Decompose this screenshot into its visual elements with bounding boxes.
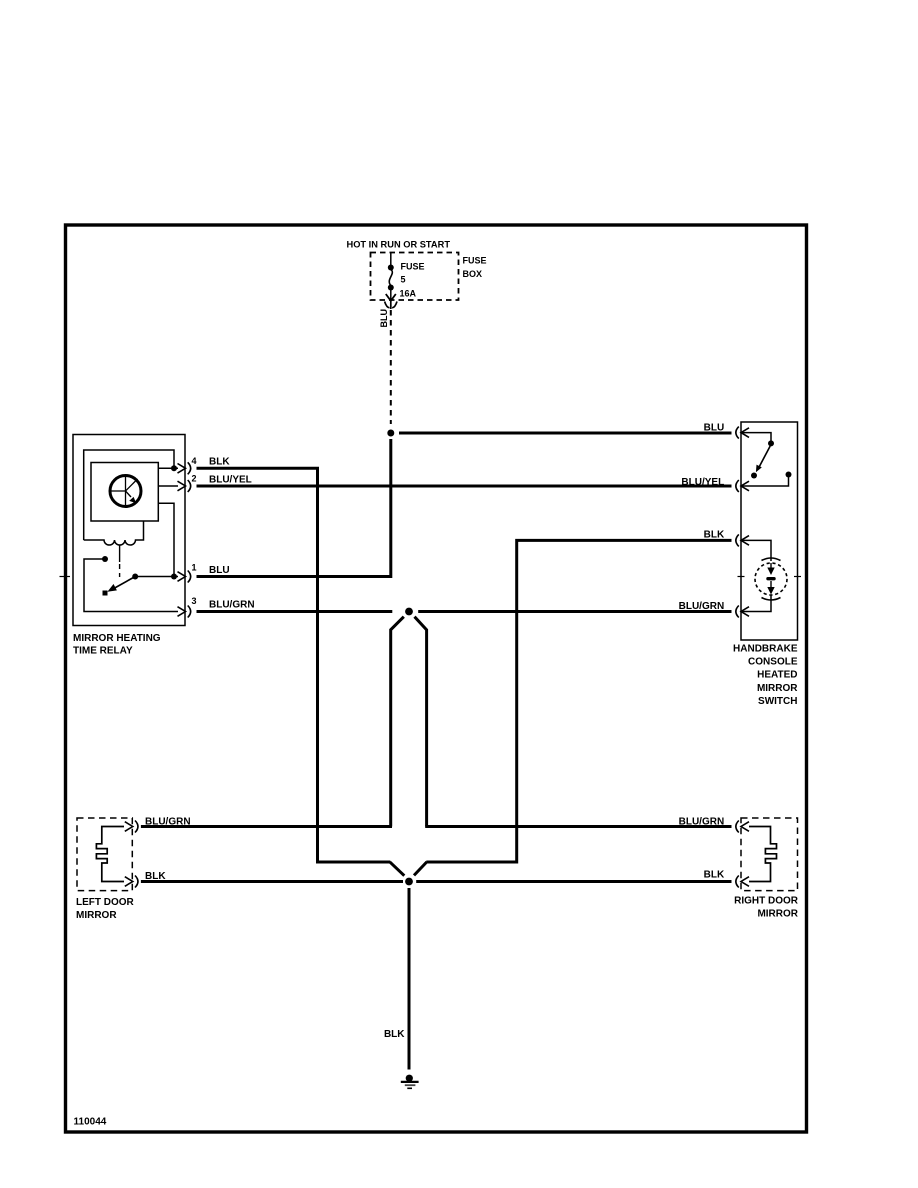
ground symbol [401, 1075, 419, 1089]
pin 4 connector [188, 462, 191, 474]
svg-text:BLU: BLU [209, 565, 230, 576]
wire pin 4 internal [158, 467, 178, 469]
svg-text:1: 1 [192, 563, 197, 573]
left door mirror box [77, 818, 132, 891]
svg-text:TIME RELAY: TIME RELAY [73, 646, 133, 657]
svg-text:BLK: BLK [704, 529, 725, 540]
node BLU/GRN junction [405, 608, 413, 616]
pin 3 connector [188, 606, 191, 618]
wire contact to pin 3 [84, 559, 178, 612]
switch open contact [751, 473, 757, 479]
node BLU junction [387, 430, 394, 437]
alignment tick on left frame [60, 576, 71, 578]
switch contact square [103, 591, 108, 596]
indicator lamp [755, 558, 787, 600]
alignment tick on switch box right edge [794, 576, 801, 578]
wire timer right stub down to pin 1 [158, 503, 174, 574]
left mirror pin BLU/GRN arrow [125, 822, 133, 832]
switch arm arrowhead [756, 465, 762, 473]
wire BLK diagonal left to ground node [390, 862, 405, 876]
wire BLU/GRN junction diagonal right [415, 617, 427, 827]
wire BLU/YEL relay pin 2 to handbrake [197, 485, 732, 488]
svg-text:2: 2 [192, 474, 197, 484]
right door mirror box [741, 818, 798, 891]
wire lamp to BLU/GRN pin [741, 595, 771, 612]
pin BLK arrow [741, 536, 749, 546]
svg-text:110044: 110044 [74, 1117, 107, 1128]
switch arm [759, 446, 770, 467]
relay box MIRROR HEATING TIME RELAY [73, 435, 185, 626]
clock symbol [110, 476, 141, 507]
pin BLU/YEL arrow [741, 481, 749, 491]
wire BLU pin to switch contact [741, 433, 771, 441]
pin BLU arrow [741, 428, 749, 438]
wire pin 2 internal [158, 485, 178, 487]
fuse F5 16A [388, 265, 394, 302]
svg-text:FUSE: FUSE [463, 256, 487, 266]
pin 2 connector [188, 480, 191, 492]
svg-text:MIRROR: MIRROR [757, 909, 798, 920]
svg-text:BLK: BLK [384, 1029, 405, 1040]
svg-text:HEATED: HEATED [757, 670, 797, 681]
switch arm arrowhead [107, 584, 117, 592]
svg-text:FUSE: FUSE [401, 262, 425, 272]
handbrake switch box [741, 422, 798, 640]
svg-text:HOT IN RUN OR START: HOT IN RUN OR START [347, 239, 451, 250]
wire BLU node to handbrake [399, 432, 732, 435]
wire BLU/GRN mirrors row [141, 825, 392, 828]
wire from fuse box top to fuse [390, 253, 392, 267]
alignment tick on switch box left edge [738, 576, 745, 578]
connector socket below fuse box [385, 302, 397, 308]
right mirror pin BLK arrow [741, 877, 749, 887]
pin 1 arrow [178, 572, 186, 582]
pin BLU connector [736, 427, 739, 439]
svg-text:BLU: BLU [379, 309, 389, 328]
pin 4 arrow [178, 464, 186, 474]
svg-text:3: 3 [192, 596, 197, 606]
pin 2 arrow [178, 481, 186, 491]
wire timer top loop to pin 4 [84, 450, 174, 540]
svg-text:HANDBRAKE: HANDBRAKE [733, 644, 798, 655]
right mirror pin BLU/GRN connector [736, 821, 739, 833]
pin 1 connector [188, 571, 191, 583]
wire BLU/GRN junction diagonal left [391, 617, 404, 827]
junction pin 1 [171, 574, 177, 580]
pin BLU/GRN connector [736, 606, 739, 618]
coil actuator dashed link [119, 546, 121, 563]
timer unit box [91, 463, 158, 522]
node BLK ground junction [405, 878, 413, 886]
svg-text:MIRROR: MIRROR [76, 910, 117, 921]
pin BLK connector [736, 534, 739, 546]
svg-text:BLU/GRN: BLU/GRN [209, 600, 255, 611]
svg-text:SWITCH: SWITCH [758, 696, 797, 707]
wire BLK diagonal right to ground node [414, 862, 427, 876]
svg-text:BOX: BOX [463, 269, 483, 279]
arrow out of fuse box [386, 294, 396, 301]
wire BLU node down to relay pin 1 [197, 439, 391, 577]
fixed contact [102, 556, 108, 562]
wire BLK handbrake to bus [426, 540, 731, 862]
fixed contact right [786, 472, 792, 478]
left mirror pin BLU/GRN connector [135, 821, 138, 833]
wire BLU/GRN relay pin 3 to handbrake [197, 610, 393, 613]
wire BLK relay pin 4 [197, 468, 391, 862]
switch arm pivot junction [132, 574, 138, 580]
right mirror heating element [749, 827, 777, 882]
pin BLU/YEL connector [736, 480, 739, 492]
svg-text:4: 4 [192, 456, 197, 466]
svg-text:BLK: BLK [209, 457, 230, 468]
svg-text:RIGHT DOOR: RIGHT DOOR [734, 896, 799, 907]
left mirror pin BLK connector [135, 876, 138, 888]
left mirror heating element [96, 827, 124, 882]
wire dashed BLU from fuse down to node [390, 301, 392, 309]
right mirror pin BLK connector [736, 876, 739, 888]
svg-text:BLK: BLK [704, 870, 725, 881]
left mirror pin BLK arrow [125, 877, 133, 887]
relay coil [84, 521, 144, 545]
switch arm [112, 577, 135, 590]
wire BLK mirrors row [141, 880, 403, 883]
svg-text:BLU/YEL: BLU/YEL [209, 475, 252, 486]
svg-text:LEFT DOOR: LEFT DOOR [76, 897, 135, 908]
fuse box outline [371, 253, 459, 301]
svg-text:MIRROR HEATING: MIRROR HEATING [73, 633, 161, 644]
wire BLU/YEL pin to fixed contact [741, 477, 789, 486]
wire arm to pin 1 [135, 576, 178, 578]
pin BLU/GRN arrow [741, 607, 749, 617]
junction pin 4 [171, 465, 177, 471]
right mirror pin BLU/GRN arrow [741, 822, 749, 832]
wire BLK pin to lamp [741, 540, 771, 561]
svg-text:5: 5 [401, 275, 406, 285]
pin 3 arrow [178, 607, 186, 617]
svg-text:MIRROR: MIRROR [757, 683, 798, 694]
switch top contact [768, 440, 774, 446]
svg-text:16A: 16A [400, 289, 417, 299]
wire BLK down to ground [408, 888, 411, 1070]
svg-text:CONSOLE: CONSOLE [748, 657, 798, 668]
